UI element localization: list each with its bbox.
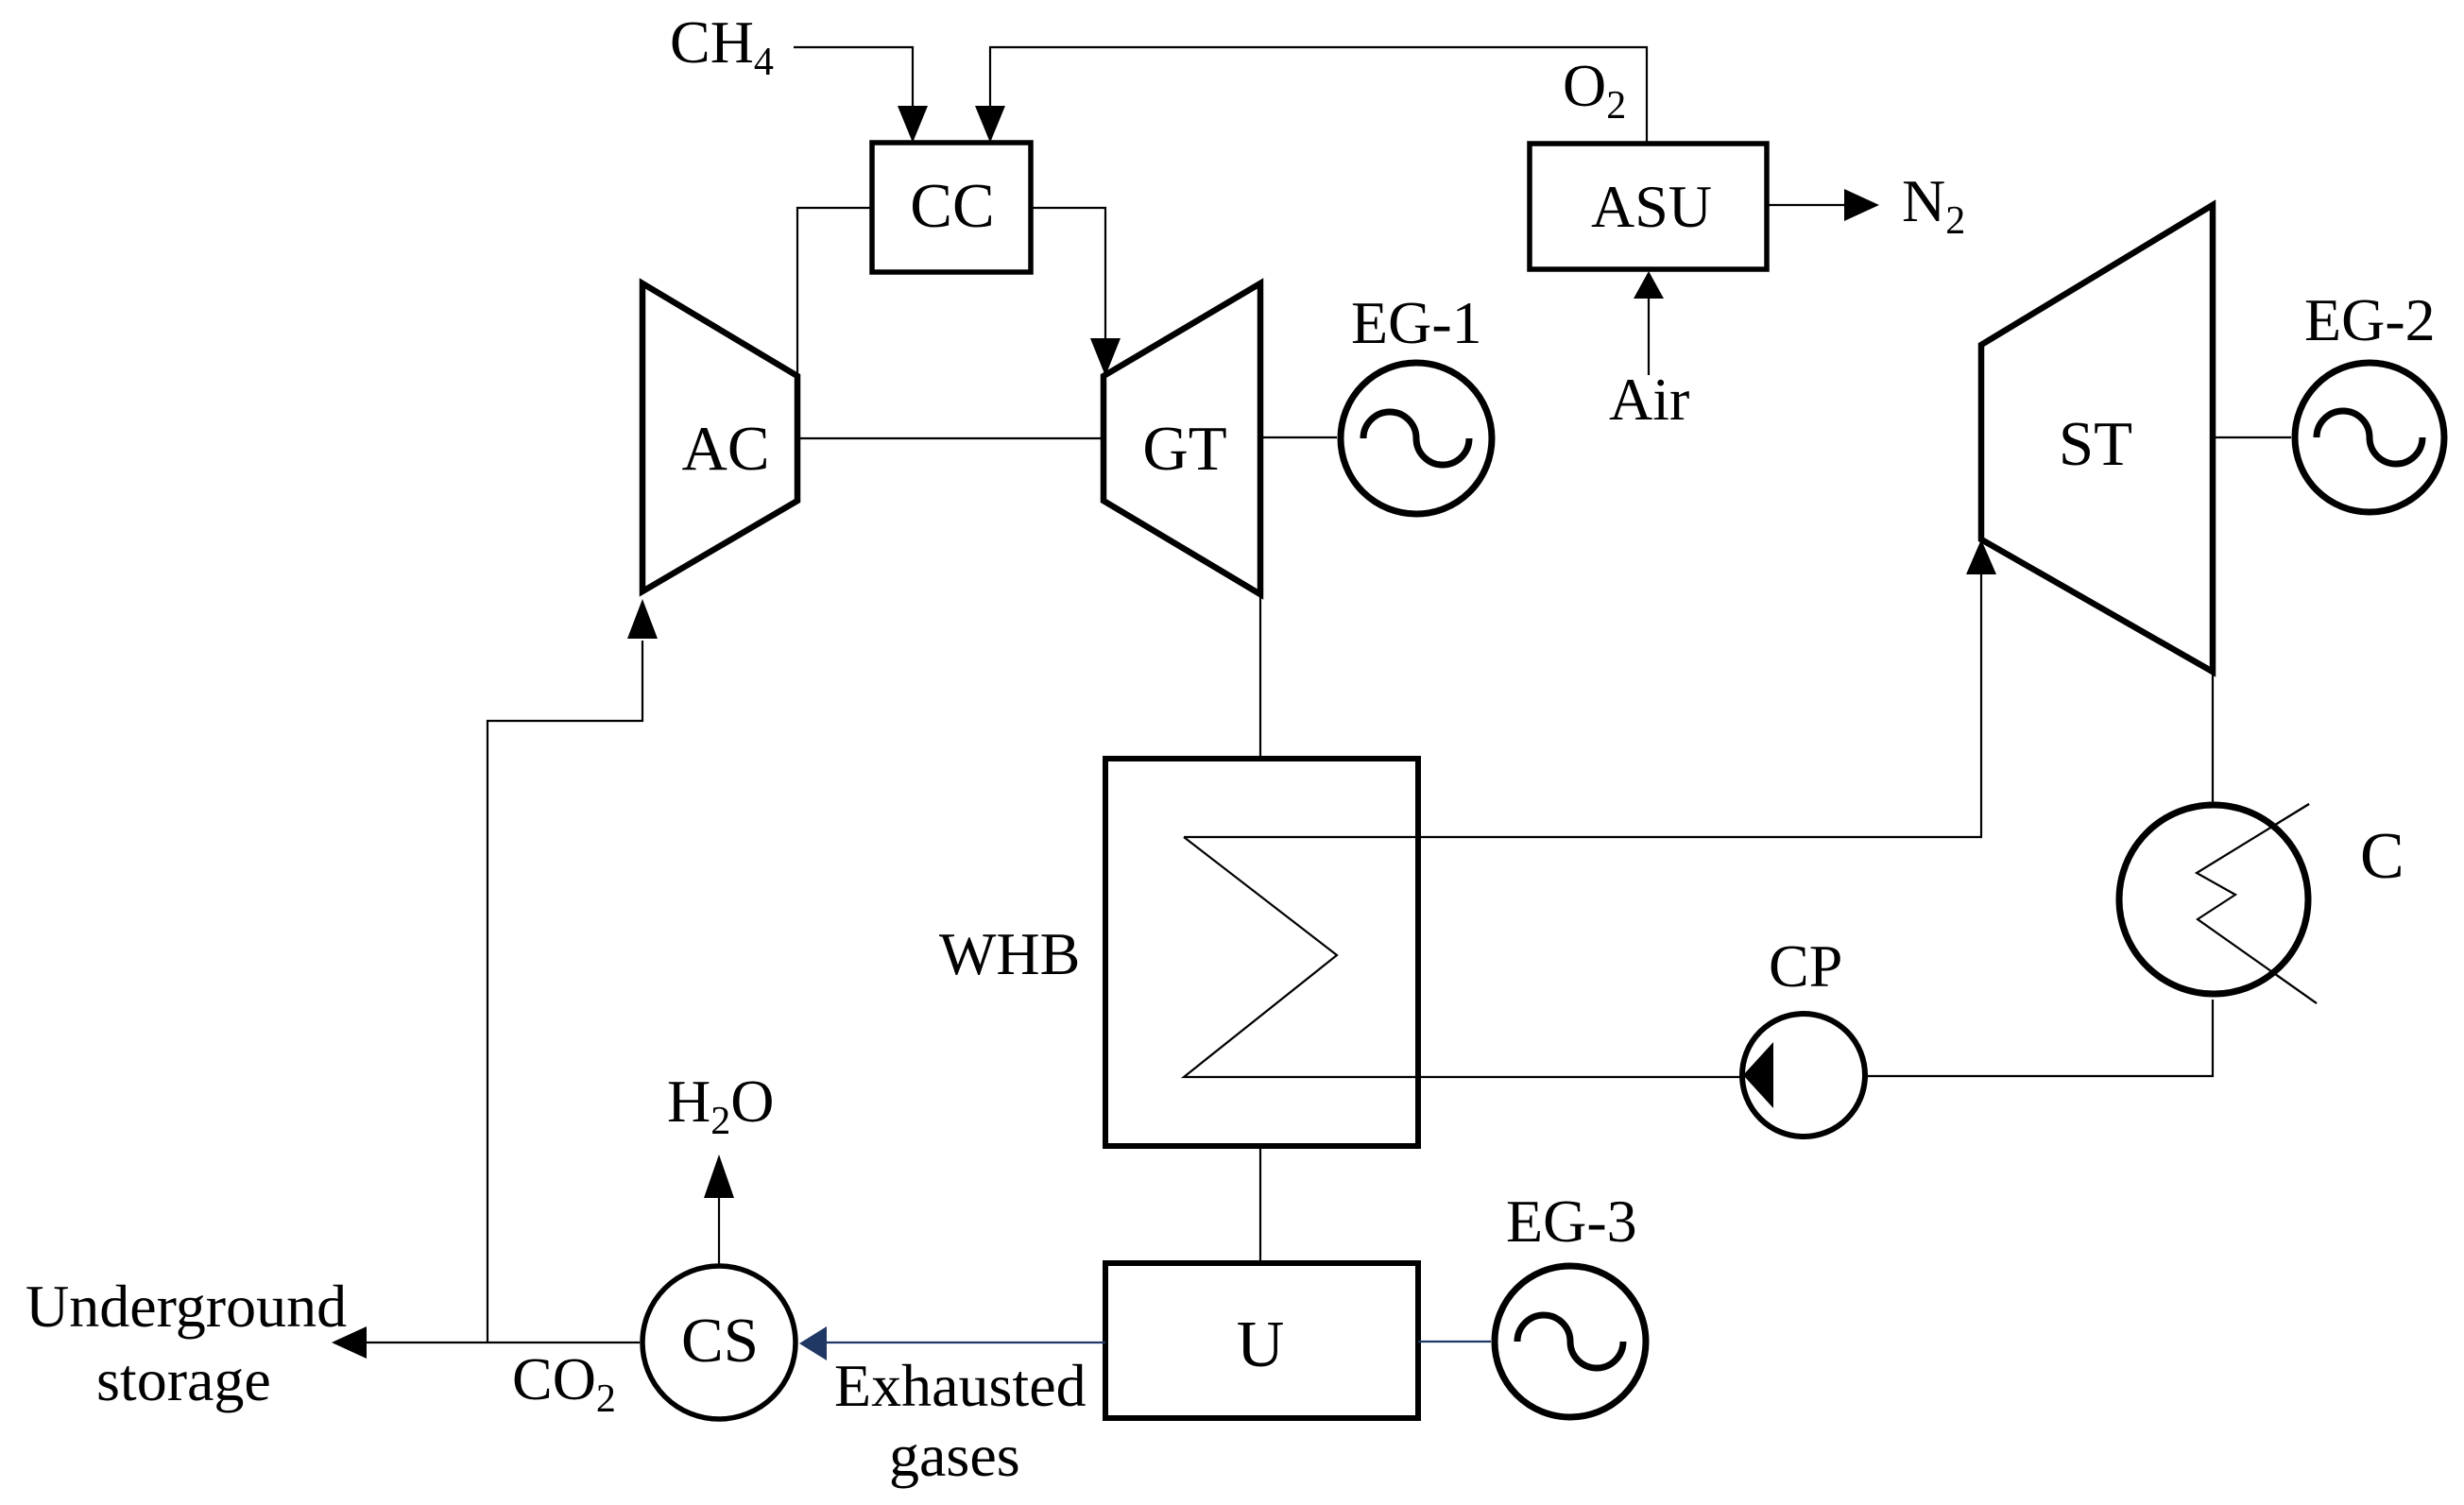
svg-text:gases: gases: [889, 1422, 1020, 1489]
svg-text:CS: CS: [681, 1306, 759, 1376]
svg-text:GT: GT: [1142, 414, 1226, 484]
svg-text:Air: Air: [1609, 366, 1689, 433]
svg-text:CC: CC: [910, 171, 994, 241]
svg-text:U: U: [1237, 1308, 1285, 1381]
svg-text:AC: AC: [681, 414, 769, 484]
svg-text:storage: storage: [96, 1346, 271, 1413]
svg-text:CP: CP: [1769, 932, 1842, 1000]
svg-text:C: C: [2360, 820, 2404, 893]
svg-text:ST: ST: [2059, 409, 2132, 479]
svg-text:EG-2: EG-2: [2304, 286, 2436, 353]
svg-text:WHB: WHB: [939, 920, 1080, 987]
svg-text:Exhausted: Exhausted: [834, 1352, 1087, 1419]
svg-text:EG-1: EG-1: [1351, 289, 1482, 356]
svg-text:EG-3: EG-3: [1506, 1188, 1637, 1255]
svg-text:ASU: ASU: [1591, 173, 1712, 240]
svg-text:Underground: Underground: [26, 1273, 347, 1340]
